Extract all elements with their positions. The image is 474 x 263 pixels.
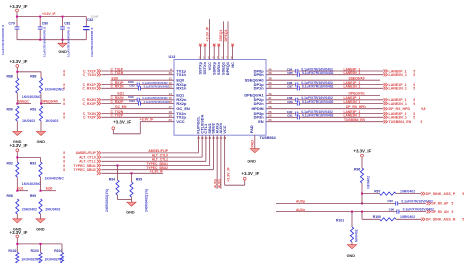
svg-text:10R/0402: 10R/0402: [400, 189, 415, 193]
off-page connector C_TX1P: [63, 69, 101, 73]
wire +3.3V_IF row: [97, 170, 163, 175]
svg-text:24: 24: [209, 137, 212, 140]
svg-text:AUXn: AUXn: [296, 208, 305, 212]
svg-text:2.2uF: 2.2uF: [91, 14, 99, 18]
svg-text:23: 23: [205, 138, 208, 140]
node EQ1 stub: [111, 92, 175, 96]
svg-text:EQ0: EQ0: [46, 187, 53, 191]
off-page connector ALT_CTL0: [63, 155, 101, 159]
svg-text:LANE0N_1: LANE0N_1: [344, 71, 361, 75]
svg-text:DP_SINK_ASS_P: DP_SINK_ASS_P: [426, 192, 456, 196]
svg-text:DP_RX_HPD: DP_RX_HPD: [389, 107, 411, 111]
svg-text:DPEQ1: DPEQ1: [224, 29, 228, 41]
svg-text:RX1n: RX1n: [176, 86, 187, 91]
wire C_RX1N: [102, 85, 175, 89]
node LANE2P_1: [344, 96, 361, 100]
svg-text:ALT_CTL0: ALT_CTL0: [79, 155, 96, 159]
svg-text:0.1uF/X7R/16V/0402: 0.1uF/X7R/16V/0402: [144, 100, 170, 104]
svg-text:LANE1N_1: LANE1N_1: [389, 87, 407, 91]
off-page connector LANE0N_1: [384, 73, 416, 77]
svg-text:C85: C85: [287, 71, 293, 75]
svg-text:R100: R100: [373, 215, 381, 219]
svg-text:+3.3V_IF: +3.3V_IF: [10, 59, 28, 64]
resistor R96: [354, 168, 371, 194]
U13 left pin names: [176, 68, 190, 124]
off-page connector LANE2N_1: [384, 102, 416, 106]
svg-text:1K/0402/NC: 1K/0402/NC: [22, 182, 42, 186]
power +3.3V_IF (bottom-left): [10, 230, 28, 244]
svg-text:EQ0: EQ0: [112, 77, 119, 81]
wire rail: [16, 243, 62, 253]
node SSEQ1 top stub: [219, 21, 223, 59]
svg-text:+3.3V_IF: +3.3V_IF: [241, 171, 259, 176]
node LANE3P_1: [344, 110, 361, 114]
off-page connector DP_RX_HPD: [384, 107, 426, 111]
svg-text:GND: GND: [126, 211, 135, 215]
capacitor C85: [266, 71, 384, 77]
capacitor C87: [266, 85, 384, 91]
wire VCC bottom: [225, 135, 245, 185]
svg-text:U13: U13: [169, 55, 176, 59]
svg-text:R93: R93: [30, 162, 36, 166]
svg-text:DP_RX_AN: DP_RX_AN: [432, 210, 450, 214]
svg-text:R103: R103: [31, 249, 39, 253]
wire AUXp stub: [213, 135, 217, 189]
svg-text:C81: C81: [64, 21, 70, 25]
svg-text:0.1uF/X7R/16V/0402: 0.1uF/X7R/16V/0402: [144, 85, 170, 89]
wire DP_RX_HPD: [266, 105, 384, 109]
U13 bottom pin numbers: [197, 137, 227, 140]
resistor R94: [105, 165, 132, 213]
resistor R95: [130, 172, 149, 212]
off-page connector C_RX2P: [63, 102, 101, 106]
svg-text:DP0n: DP0n: [254, 72, 265, 77]
power +3.3V_IF (VCC bottom): [241, 171, 259, 185]
svg-text:GND: GND: [37, 140, 46, 144]
resistor R93: [30, 162, 65, 191]
capacitor C90: [266, 110, 384, 116]
power +3.3V_IF (VCC pin 20): [112, 119, 132, 133]
node LANE3N_1: [344, 114, 361, 118]
capacitor C84: [266, 67, 384, 73]
svg-text:R88: R88: [7, 74, 13, 78]
svg-text:GND: GND: [58, 50, 67, 54]
svg-text:+3.3V_IF: +3.3V_IF: [42, 12, 55, 16]
ground R101: [347, 245, 357, 258]
svg-text:GND: GND: [36, 227, 45, 231]
svg-text:+3.3V_IF: +3.3V_IF: [150, 170, 163, 174]
svg-text:TYPEC_SBU2: TYPEC_SBU2: [74, 168, 96, 172]
capacitor C89: [266, 100, 384, 106]
svg-text:AMSEL/FLIP: AMSEL/FLIP: [76, 151, 97, 155]
svg-text:C82: C82: [87, 18, 93, 22]
ground R90: [13, 131, 22, 144]
svg-text:8: 8: [63, 155, 65, 159]
svg-text:8: 8: [63, 87, 65, 91]
capacitor C82: [83, 14, 98, 57]
resistor R89: [30, 74, 64, 103]
power +3.3V_IF (divider 1): [10, 59, 28, 72]
svg-text:SSEQ1: SSEQ1: [18, 100, 29, 104]
svg-text:AUXp: AUXp: [213, 179, 217, 188]
off-page connector LANE1N_1: [384, 87, 416, 91]
svg-text:5: 5: [452, 202, 454, 206]
node LANE0N_1: [344, 71, 361, 75]
svg-text:GND: GND: [247, 159, 256, 163]
node DPEQ0/A0: [40, 100, 61, 105]
wire ALT_CTL1: [102, 135, 206, 161]
svg-text:1K/0402/NC: 1K/0402/NC: [21, 258, 41, 262]
wire TYPEC_SBU1: [102, 135, 210, 166]
power +3.3V_IF (R96): [353, 149, 371, 168]
svg-text:GND: GND: [347, 254, 356, 258]
node LANE1N_1: [344, 85, 361, 89]
svg-text:0.1uF/X7R/16V/0402/PB_B: 0.1uF/X7R/16V/0402/PB_B: [68, 27, 71, 57]
svg-text:8: 8: [63, 164, 65, 168]
wire AMSEL/FLIP: [102, 135, 199, 153]
off-page connector DP_SINK_ASS_N: [421, 218, 464, 222]
ground R98: [13, 219, 22, 232]
capacitor C91: [266, 114, 384, 120]
svg-text:SSEQ0/A0: SSEQ0/A0: [349, 77, 365, 81]
svg-text:LANE3N_1: LANE3N_1: [344, 114, 361, 118]
svg-text:NF/0402: NF/0402: [367, 176, 371, 189]
wire C_TX2N: [102, 110, 175, 114]
resistor R98: [7, 194, 38, 219]
svg-text:+3.3V_IF: +3.3V_IF: [10, 230, 28, 235]
svg-text:240R/0402(1%): 240R/0402(1%): [105, 189, 109, 212]
svg-text:DPEQ0/A0: DPEQ0/A0: [42, 100, 58, 104]
svg-text:+3.3V_IF: +3.3V_IF: [226, 167, 230, 182]
svg-text:LANE3N_1: LANE3N_1: [389, 116, 407, 120]
svg-text:+3.3V_IF: +3.3V_IF: [10, 4, 28, 9]
svg-text:0.1uF/X7R/16V/0402: 0.1uF/X7R/16V/0402: [302, 100, 334, 104]
off-page connector LANE0P_1: [384, 69, 416, 73]
svg-text:R89: R89: [30, 74, 36, 78]
node SSEQ1: [16, 100, 31, 105]
net label +3.3V_IF on rail: [42, 12, 55, 16]
resistor R102: [8, 249, 41, 263]
svg-text:1K/0402: 1K/0402: [22, 119, 35, 123]
svg-text:0.1uF/X7R/16V/0402: 0.1uF/X7R/16V/0402: [302, 71, 334, 75]
power +3.3V_IF (divider 2): [10, 143, 28, 157]
junction: [39, 16, 41, 41]
svg-text:8: 8: [63, 73, 65, 77]
svg-text:R96: R96: [354, 168, 360, 172]
svg-text:10uF/X5R/16V/0805/PB_B: 10uF/X5R/16V/0805/PB_B: [91, 27, 94, 57]
svg-text:8: 8: [63, 151, 65, 155]
svg-text:C96: C96: [389, 207, 395, 211]
svg-text:RX2p: RX2p: [176, 101, 187, 106]
svg-text:+3.3V_IF: +3.3V_IF: [10, 143, 28, 148]
svg-text:5: 5: [462, 218, 464, 222]
wire AUXp: [276, 200, 426, 204]
svg-text:EQ1: EQ1: [17, 187, 24, 191]
capacitor C95: [387, 199, 433, 205]
wire VCC pin 20: [113, 118, 174, 134]
resistor R104: [54, 249, 63, 263]
wire C_TX1N: [102, 71, 175, 75]
svg-text:C79: C79: [9, 21, 15, 25]
svg-text:R99: R99: [30, 194, 36, 198]
off-page connector C_TX2N: [63, 112, 101, 116]
svg-text:HPDIN: HPDIN: [251, 106, 263, 111]
U13 pin PAD name: [249, 125, 254, 133]
svg-text:C_TX1N: C_TX1N: [111, 71, 124, 75]
no-connect pin SSRXp: [213, 44, 216, 60]
svg-text:TUSB564_EN: TUSB564_EN: [344, 118, 366, 122]
wire C_TX2P: [102, 114, 175, 118]
svg-text:5,8: 5,8: [421, 107, 426, 111]
svg-text:22: 22: [201, 138, 204, 140]
svg-text:20K/0402: 20K/0402: [22, 208, 37, 212]
no-connect pin SSTXn: [204, 44, 207, 60]
svg-text:R92: R92: [7, 162, 13, 166]
off-page connector C_TX2P: [63, 116, 101, 120]
capacitor C80: [38, 17, 48, 57]
svg-text:C_TX2P: C_TX2P: [111, 114, 124, 118]
svg-text:SSEQ1: SSEQ1: [219, 30, 223, 42]
node LANE2N_1: [344, 100, 361, 104]
svg-text:VCC: VCC: [176, 119, 184, 124]
svg-text:C_RX1N: C_RX1N: [82, 87, 96, 91]
off-page connector TYPEC_SBU1: [63, 164, 101, 168]
svg-text:0.1uF/X7R/16V/0402: 0.1uF/X7R/16V/0402: [302, 114, 334, 118]
ground (bypass group): [58, 40, 67, 54]
node EQ0 stub: [111, 77, 175, 81]
svg-text:DP_RX_AP: DP_RX_AP: [432, 202, 450, 206]
off-page connector C_RX2N: [63, 98, 101, 102]
resistor R91: [30, 106, 58, 131]
svg-text:R91: R91: [30, 108, 36, 112]
svg-text:AUXp: AUXp: [296, 200, 305, 204]
svg-text:PAD: PAD: [251, 140, 255, 148]
svg-text:R102: R102: [8, 249, 16, 253]
wire: [16, 156, 40, 162]
wire VCC top +3.3V_IF: [205, 19, 209, 59]
svg-text:TYPEC_SBU1: TYPEC_SBU1: [74, 164, 96, 168]
svg-text:C80: C80: [42, 21, 48, 25]
svg-text:C87: C87: [287, 85, 293, 89]
resistor R92: [7, 162, 42, 191]
off-page connector TUSB564_EN: [384, 120, 423, 124]
U13 right pin numbers: [268, 67, 272, 122]
svg-text:5: 5: [413, 87, 415, 91]
svg-text:8: 8: [63, 116, 65, 120]
U13 top pin names: [198, 61, 235, 75]
svg-text:28: 28: [224, 138, 227, 140]
svg-text:TYPEC_SBU1: TYPEC_SBU1: [146, 162, 168, 166]
svg-text:ALT_CTL1: ALT_CTL1: [79, 160, 96, 164]
svg-text:+3.3V_IF: +3.3V_IF: [140, 118, 153, 122]
capacitor C96: [389, 207, 435, 213]
svg-text:AMSEL/FLIP: AMSEL/FLIP: [148, 149, 168, 153]
svg-text:0.1uF/X7R/16V/0402: 0.1uF/X7R/16V/0402: [142, 81, 168, 85]
node DPEQ0/A1 stub: [266, 92, 380, 96]
off-page connector LANE3P_1: [384, 112, 416, 116]
svg-text:C89: C89: [287, 100, 293, 104]
svg-text:C_RX2P: C_RX2P: [83, 102, 97, 106]
svg-text:GC_EN: GC_EN: [115, 105, 127, 109]
off-page connector LANE2P_1: [384, 98, 416, 102]
resistor R101: [336, 212, 358, 245]
U13 top pin numbers: [199, 57, 233, 60]
svg-text:DPEQ0/A1: DPEQ0/A1: [349, 92, 365, 96]
svg-text:C_TX1N: C_TX1N: [83, 73, 97, 77]
svg-text:LANE0N_1: LANE0N_1: [389, 73, 407, 77]
svg-text:LANE2N_1: LANE2N_1: [344, 100, 361, 104]
wire +3.3V_IF rail: [17, 16, 86, 18]
svg-text:25: 25: [212, 138, 215, 140]
wire AUXn to R100: [361, 212, 363, 220]
off-page connector AMSEL/FLIP: [63, 151, 101, 155]
resistor R103: [31, 249, 65, 263]
node EQ1: [16, 187, 28, 192]
svg-text:8: 8: [63, 102, 65, 106]
resistor R88: [7, 74, 42, 103]
svg-text:5: 5: [413, 116, 415, 120]
node LANE0P_1: [344, 67, 361, 71]
svg-text:R97: R97: [374, 189, 380, 193]
svg-text:PAD: PAD: [249, 125, 254, 133]
svg-text:DP2n: DP2n: [254, 101, 265, 106]
op-amp U13 TUSB564 body: [169, 55, 277, 140]
svg-text:ALT_CTL0: ALT_CTL0: [152, 153, 168, 157]
capacitor C92: [129, 84, 169, 91]
resistor R97: [362, 189, 421, 195]
capacitor C81: [60, 17, 71, 57]
wire: [16, 71, 41, 78]
resistor R90: [7, 106, 36, 131]
wire TUSB564_EN: [266, 118, 384, 122]
svg-text:DP1n: DP1n: [254, 86, 265, 91]
svg-text:R90: R90: [7, 108, 13, 112]
wire AUXn: [276, 208, 426, 213]
svg-text:1K/0402/NC: 1K/0402/NC: [22, 95, 42, 99]
U13 left pin numbers: [168, 67, 172, 122]
svg-text:GC_EN: GC_EN: [176, 106, 190, 111]
svg-text:1K/0402/NC: 1K/0402/NC: [45, 87, 65, 91]
svg-text:0.1uF/X7R/16V/0402: 0.1uF/X7R/16V/0402: [142, 96, 168, 100]
svg-text:240R/0402(1%): 240R/0402(1%): [144, 189, 148, 212]
ground R99: [36, 219, 45, 232]
svg-text:EQ1: EQ1: [118, 92, 125, 96]
svg-text:5: 5: [452, 210, 454, 214]
svg-text:20K/0402: 20K/0402: [45, 208, 60, 212]
capacitor C79: [2, 17, 19, 55]
svg-text:LANE2N_1: LANE2N_1: [389, 102, 407, 106]
U13 bottom pin names: [196, 114, 227, 133]
wire C_TX1P: [102, 67, 175, 71]
wire TYPEC_SBU2: [102, 135, 214, 170]
svg-text:R101: R101: [336, 219, 344, 223]
resistor R100: [362, 215, 421, 221]
svg-text:DP_RX_HPD: DP_RX_HPD: [346, 105, 366, 109]
node DPEQ1 top stub: [224, 21, 228, 59]
svg-text:AUXn: AUXn: [218, 179, 222, 188]
ground R94 R95: [126, 202, 136, 215]
svg-text:27: 27: [220, 138, 223, 140]
U13 right pin names: [244, 68, 264, 124]
svg-text:0.1uF/X7R/16V/0402/PB_B: 0.1uF/X7R/16V/0402/PB_B: [44, 27, 47, 57]
svg-text:C95: C95: [387, 199, 393, 203]
power +3.3V_IF (top-left rail): [10, 4, 28, 17]
svg-text:5: 5: [462, 192, 464, 196]
wire bottom bus: [17, 39, 86, 41]
svg-text:LANE1N_1: LANE1N_1: [344, 85, 361, 89]
no-connect pin SSRXn: [218, 44, 221, 60]
node LANE1P_1: [344, 81, 361, 85]
svg-text:C92: C92: [129, 84, 135, 88]
svg-text:1K/0402: 1K/0402: [45, 119, 58, 123]
svg-text:C94: C94: [129, 99, 135, 103]
ground PAD: [247, 149, 259, 164]
svg-text:8: 8: [63, 168, 65, 172]
svg-text:DP_SINK_ASS_N: DP_SINK_ASS_N: [426, 218, 456, 222]
svg-text:EN: EN: [258, 119, 264, 124]
wire C_RX1P: [102, 81, 175, 85]
capacitor C83: [128, 80, 168, 87]
svg-text:NC: NC: [230, 62, 235, 68]
wire AUXn stub: [218, 135, 222, 189]
off-page connector C_RX1P: [63, 83, 101, 87]
svg-text:TUSB564_EN: TUSB564_EN: [389, 120, 412, 124]
no-connect pin SSTXp: [199, 44, 202, 60]
svg-text:C91: C91: [287, 114, 293, 118]
svg-text:C_RX1N: C_RX1N: [111, 85, 125, 89]
svg-text:21: 21: [197, 138, 200, 140]
off-page connector LANE1P_1: [384, 83, 416, 87]
junction: [16, 16, 64, 41]
svg-text:NF/0402: NF/0402: [354, 229, 358, 242]
no-connect pin NC: [231, 44, 234, 60]
resistor R99: [30, 194, 61, 219]
svg-text:5: 5: [421, 120, 423, 124]
off-page connector DP_SINK_ASS_P: [421, 192, 464, 196]
svg-text:C_RX2P: C_RX2P: [111, 100, 125, 104]
svg-text:R104: R104: [54, 249, 62, 253]
off-page connector LANE3N_1: [384, 116, 416, 120]
wire ALT_CTL0: [102, 135, 203, 157]
wire R96 to AUXp: [361, 193, 363, 205]
svg-text:TUSB564: TUSB564: [260, 136, 277, 140]
svg-text:+3.3V_IF: +3.3V_IF: [353, 149, 371, 154]
capacitor C94: [129, 99, 169, 106]
svg-text:TX1n: TX1n: [176, 72, 186, 77]
svg-text:+3.3V_IF: +3.3V_IF: [113, 119, 131, 124]
svg-text:8: 8: [63, 160, 65, 164]
off-page connector TYPEC_SBU2: [63, 168, 101, 172]
node SSEQ0/A0 stub: [266, 77, 380, 81]
capacitor C88: [266, 96, 384, 102]
svg-text:0.1uF/X7R/16V/0402/PB_B: 0.1uF/X7R/16V/0402/PB_B: [2, 25, 5, 55]
svg-text:R95: R95: [136, 177, 142, 181]
node GC_EN stub: [111, 105, 175, 109]
off-page connector C_RX1N: [63, 87, 101, 91]
svg-text:26: 26: [216, 138, 219, 140]
svg-text:C_TX2P: C_TX2P: [83, 116, 97, 120]
svg-text:0.1uF/X7R/16V/0402: 0.1uF/X7R/16V/0402: [302, 85, 334, 89]
off-page connector C_TX1N: [63, 73, 101, 77]
svg-text:5: 5: [413, 102, 415, 106]
wire PAD: [251, 135, 255, 149]
node EQ0: [40, 187, 57, 192]
svg-text:R98: R98: [7, 194, 13, 198]
svg-text:1K/0402/NC: 1K/0402/NC: [45, 177, 65, 181]
off-page connector DP_RX_AN: [427, 210, 454, 214]
svg-text:5: 5: [413, 73, 415, 77]
svg-text:VCC: VCC: [222, 125, 227, 133]
